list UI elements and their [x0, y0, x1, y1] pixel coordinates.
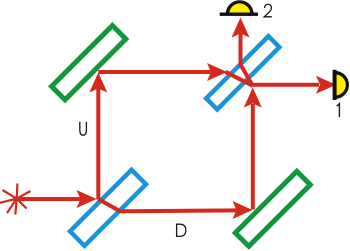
mirror M1 (top-left green mirror) [52, 26, 126, 100]
label D [177, 224, 186, 236]
label U [80, 122, 87, 136]
detector 1 (right, yellow half-dome) [333, 70, 349, 100]
top beam (mirror M1 to BS2) [98, 63, 227, 81]
beam splitter BS1 (bottom-left blue) [70, 170, 146, 246]
refracted segment inside BS2 (up-left) [241, 65, 253, 86]
beam U vertical (BS1 up to mirror M1) [89, 73, 107, 200]
laser source star [0, 184, 31, 215]
mirror M2 (bottom-right green mirror) [235, 171, 310, 246]
label 2 [264, 4, 272, 16]
refracted segment inside BS2 (down-right) [226, 72, 253, 86]
beam to detector 2 (vertical up) [232, 18, 250, 67]
beam splitter BS2 (top-right blue) [206, 36, 279, 109]
beam to detector 1 (horizontal right) [253, 76, 337, 94]
beam D vertical (mirror M2 up to BS2) [244, 88, 262, 210]
input beam from source to BS1 [13, 190, 97, 208]
detector 2 (top, yellow half-dome) [220, 0, 258, 16]
label 1 [337, 104, 340, 118]
beam D horizontal (BS1 to mirror M2) [119, 201, 253, 219]
refracted segment inside BS1 [98, 199, 121, 212]
